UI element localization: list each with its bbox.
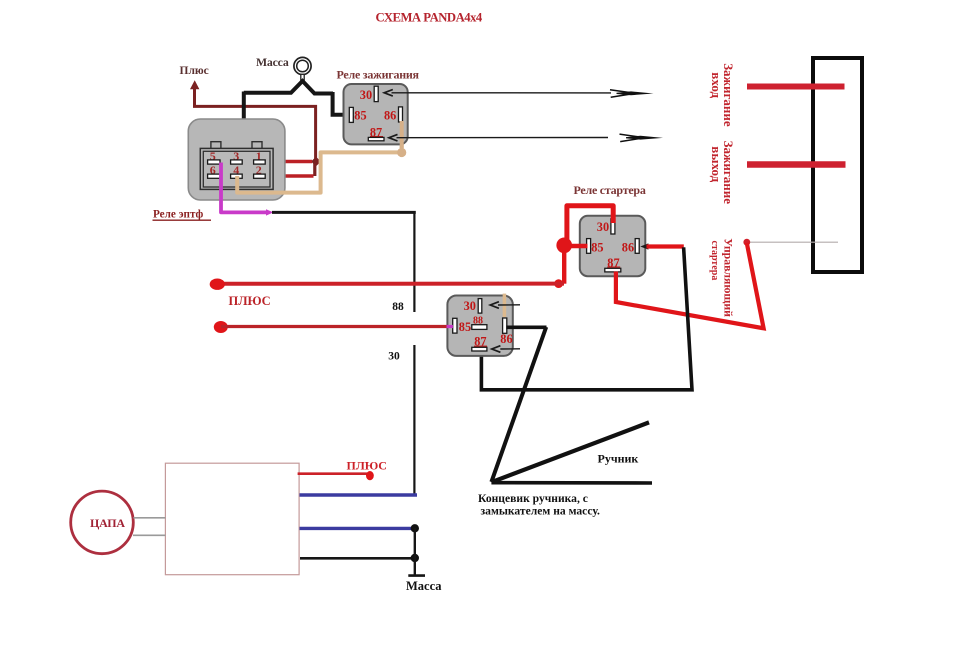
wire red starter relay feed <box>564 206 614 284</box>
wire black diagonal to handbrake pivot <box>491 327 546 482</box>
red bar зажигание выход <box>747 161 846 168</box>
tan stub over relay <box>503 294 507 317</box>
arrow into pin 87 <box>389 134 398 141</box>
wire black from ring fork <box>244 81 350 161</box>
svg-text:ПЛЮС: ПЛЮС <box>229 294 271 308</box>
pin 85 (starter relay) <box>587 239 591 254</box>
dart arrow right (ignition output) <box>620 134 664 142</box>
stub wires circle-box <box>133 517 165 519</box>
wire grey starter control <box>747 241 838 243</box>
power arrow Плюс <box>190 80 316 158</box>
wire black center-86 to handbrake <box>506 325 546 329</box>
relay ЭПТФ (center) <box>447 296 512 356</box>
svg-text:Реле эптф: Реле эптф <box>153 209 203 221</box>
svg-text:85: 85 <box>591 240 603 254</box>
svg-text:замыкателем на массу.: замыкателем на массу. <box>481 505 600 518</box>
svg-text:30: 30 <box>360 88 372 102</box>
svg-text:Плюс: Плюс <box>180 65 209 77</box>
terminal red oval bottom <box>366 471 374 480</box>
arrow into pin 87 (center relay) <box>492 346 501 353</box>
wire red to pin 1 <box>255 160 312 163</box>
wire black to ground <box>414 528 416 575</box>
wire blue 2 <box>300 527 415 530</box>
unit box (bottom) <box>165 463 299 575</box>
svg-text:85: 85 <box>459 320 471 334</box>
wire red bottom plus <box>298 472 367 475</box>
wire magenta from pin 5 <box>221 163 267 213</box>
wire black bottom <box>300 557 415 560</box>
handbrake baseline <box>491 481 652 485</box>
svg-text:ПЛЮС: ПЛЮС <box>347 459 387 473</box>
wire red to starter 86 <box>647 244 684 248</box>
ground bar <box>408 574 425 577</box>
svg-text:Управляющий: Управляющий <box>721 238 735 317</box>
tan wire over ignition relay <box>400 121 404 148</box>
red bar зажигание вход <box>747 84 845 90</box>
arrowhead magenta <box>266 209 274 215</box>
node red dot starter control <box>743 239 750 246</box>
wire blue 1 <box>300 493 418 496</box>
actuator circle ЦАПА <box>71 491 134 554</box>
svg-text:86: 86 <box>384 108 396 122</box>
node big red dot <box>556 238 572 254</box>
svg-text:выход: выход <box>709 146 724 182</box>
svg-text:86: 86 <box>500 332 512 346</box>
wire tan pin4 to relay 86 <box>237 121 406 193</box>
svg-text:вход: вход <box>709 72 724 98</box>
pin 85 (ignition relay) <box>349 107 353 122</box>
svg-text:СХЕМА PANDA4x4: СХЕМА PANDA4x4 <box>376 10 483 24</box>
pin 86 (center relay) <box>503 318 507 333</box>
svg-text:Масса: Масса <box>406 579 442 593</box>
svg-text:ЦАПА: ЦАПА <box>90 516 125 530</box>
arrow into pin 30 <box>384 90 393 97</box>
connector Реле эптф block <box>188 119 285 200</box>
wire magenta stub to pin 85 <box>447 325 453 328</box>
node black dot blue2 <box>411 524 419 532</box>
arrow into pin 30 (center relay) <box>490 302 499 309</box>
svg-text:30: 30 <box>597 220 609 234</box>
wire red starter 87 to control <box>616 243 764 328</box>
wire red ПЛЮС line 2 <box>221 325 448 328</box>
svg-text:Реле зажигания: Реле зажигания <box>337 67 420 81</box>
wire red ПЛЮС line 1 <box>217 282 564 286</box>
ring terminal Масса <box>294 57 311 81</box>
svg-text:88: 88 <box>392 301 404 313</box>
node small red dot <box>554 279 563 288</box>
ignition switch column <box>813 58 862 272</box>
terminal red oval 2 <box>214 321 228 333</box>
terminal red oval 1 <box>210 279 225 290</box>
svg-text:30: 30 <box>388 351 400 363</box>
dart arrow right (ignition input) <box>610 90 654 98</box>
handbrake lever <box>491 422 649 482</box>
svg-text:85: 85 <box>354 108 366 122</box>
junction diamond (Плюс node) <box>311 157 321 166</box>
svg-text:Реле стартера: Реле стартера <box>574 183 646 197</box>
svg-text:86: 86 <box>622 240 634 254</box>
svg-text:Ручник: Ручник <box>598 452 639 466</box>
wire maroon vertical pin1-pin2 <box>313 160 316 176</box>
wire red to pin 2 <box>255 174 314 177</box>
wire black vertical 30 segment <box>413 345 415 495</box>
svg-text:Масса: Масса <box>256 55 289 69</box>
wire black vertical 88 segment <box>413 211 415 312</box>
pin 85 (center relay) <box>453 318 457 333</box>
svg-text:стартера: стартера <box>709 241 720 281</box>
arrow into pin 86 (starter relay) <box>640 243 648 249</box>
svg-text:Концевик ручника, с: Концевик ручника, с <box>478 492 588 505</box>
wire black magenta-to-relay run <box>272 211 416 214</box>
wire black center-87 to junction <box>481 247 692 389</box>
node black dot bottom <box>411 554 419 562</box>
svg-text:30: 30 <box>464 299 476 313</box>
